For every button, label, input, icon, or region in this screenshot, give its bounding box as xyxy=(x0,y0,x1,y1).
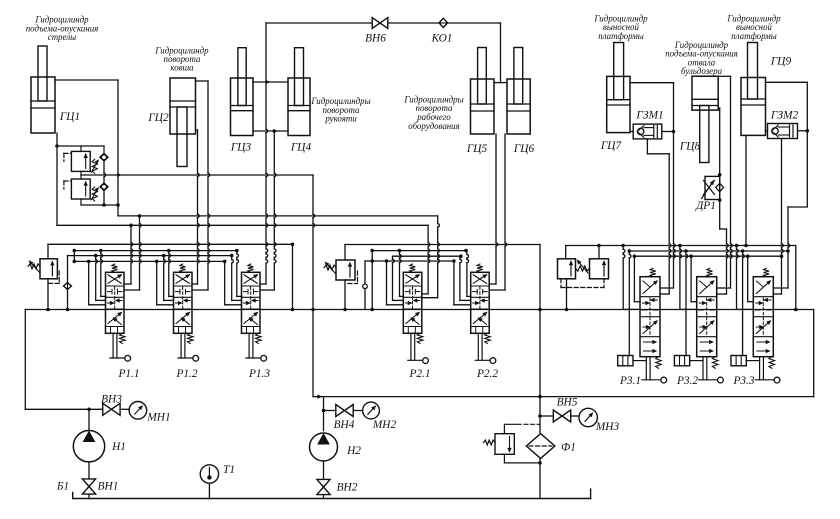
svg-text:ГЗМ2: ГЗМ2 xyxy=(770,110,799,122)
svg-text:ВН4: ВН4 xyxy=(334,419,355,431)
svg-text:ГЦ8: ГЦ8 xyxy=(679,141,701,153)
svg-text:ВН5: ВН5 xyxy=(557,397,578,409)
svg-text:Т1: Т1 xyxy=(223,464,235,476)
svg-text:ГЦ9: ГЦ9 xyxy=(770,56,792,68)
svg-text:Б1: Б1 xyxy=(56,481,69,493)
svg-text:платформы: платформы xyxy=(731,31,777,41)
svg-text:ГЦ1: ГЦ1 xyxy=(59,111,80,123)
svg-text:оборудования: оборудования xyxy=(408,121,459,131)
svg-text:ВН6: ВН6 xyxy=(365,33,386,45)
svg-text:платформы: платформы xyxy=(598,31,644,41)
svg-text:ВН2: ВН2 xyxy=(337,482,358,494)
svg-text:ГЦ7: ГЦ7 xyxy=(600,140,623,152)
svg-text:ГЦ4: ГЦ4 xyxy=(290,142,312,154)
svg-text:ВН3: ВН3 xyxy=(101,394,122,406)
svg-text:Н2: Н2 xyxy=(346,445,361,457)
svg-text:ГЗМ1: ГЗМ1 xyxy=(635,110,663,122)
svg-text:Ф1: Ф1 xyxy=(561,442,576,454)
svg-text:ГЦ6: ГЦ6 xyxy=(513,143,535,155)
svg-text:Р3.2: Р3.2 xyxy=(676,375,698,387)
svg-text:бульдозера: бульдозера xyxy=(681,66,723,76)
svg-text:ковша: ковша xyxy=(170,63,194,73)
svg-text:МН3: МН3 xyxy=(595,421,620,433)
svg-text:МН1: МН1 xyxy=(146,412,170,424)
svg-text:Р1.3: Р1.3 xyxy=(248,368,270,380)
svg-text:Р1.2: Р1.2 xyxy=(175,368,197,380)
svg-text:Р2.2: Р2.2 xyxy=(476,368,498,380)
svg-text:ГЦ3: ГЦ3 xyxy=(230,142,252,154)
svg-text:Н1: Н1 xyxy=(111,441,126,453)
svg-text:КО1: КО1 xyxy=(431,33,453,45)
svg-text:ГЦ2: ГЦ2 xyxy=(147,112,169,124)
svg-text:ГЦ5: ГЦ5 xyxy=(466,143,488,155)
svg-text:ВН1: ВН1 xyxy=(98,481,119,493)
svg-text:ДР1: ДР1 xyxy=(695,200,716,212)
svg-text:Р3.3: Р3.3 xyxy=(732,375,754,387)
svg-text:рукояти: рукояти xyxy=(324,114,357,124)
svg-text:МН2: МН2 xyxy=(372,419,397,431)
svg-text:Р1.1: Р1.1 xyxy=(117,368,139,380)
svg-text:Р3.1: Р3.1 xyxy=(619,375,641,387)
svg-text:стрелы: стрелы xyxy=(48,32,76,42)
svg-text:Р2.1: Р2.1 xyxy=(408,368,430,380)
